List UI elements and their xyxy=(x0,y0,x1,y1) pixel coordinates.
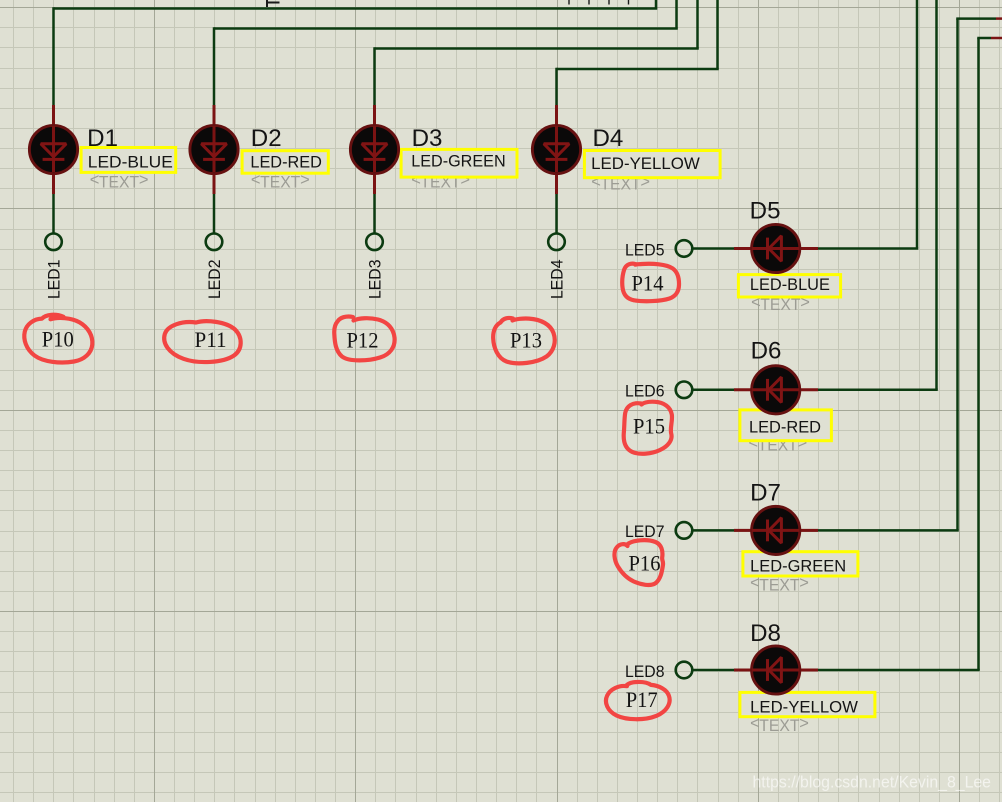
hand-drawn marker circle around P11 xyxy=(164,321,241,362)
svg-text:D2: D2 xyxy=(251,125,282,152)
wire net LED4: vertical drop to D4 anode xyxy=(555,68,558,106)
hand-drawn marker circle around P15 xyxy=(624,402,672,454)
svg-text:P10: P10 xyxy=(42,327,74,352)
terminal node LED6 xyxy=(676,382,693,399)
hand-drawn marker circle around P12 xyxy=(334,317,394,361)
svg-text:LED-GREEN: LED-GREEN xyxy=(750,558,846,576)
svg-text:LED1: LED1 xyxy=(44,260,63,300)
placeholder &lt;TEXT&gt; of D4 xyxy=(591,173,650,194)
value label box D7: LED-GREEN xyxy=(743,552,858,576)
svg-text:P14: P14 xyxy=(632,271,664,296)
svg-text:TEXT: TEXT xyxy=(759,717,799,735)
svg-text:P17: P17 xyxy=(626,687,658,712)
wire net LED1: vertical from D1 cathode to terminal xyxy=(52,193,55,234)
pin stub of off-screen part (net LED8) xyxy=(991,37,1002,40)
placeholder &lt;TEXT&gt; of D2 xyxy=(251,171,310,192)
svg-text:LED8: LED8 xyxy=(625,663,665,681)
svg-text:P15: P15 xyxy=(633,414,665,439)
svg-text:LED5: LED5 xyxy=(625,241,665,259)
svg-text:D1: D1 xyxy=(87,125,118,152)
terminal node LED1 xyxy=(45,234,62,251)
terminal node LED7 xyxy=(676,522,693,539)
svg-text:D4: D4 xyxy=(593,125,624,152)
wire net LED3: vertical drop to D3 anode xyxy=(373,47,376,106)
svg-text:LED-RED: LED-RED xyxy=(250,154,322,172)
wire net LED6: vertical riser to top edge xyxy=(935,0,938,390)
svg-text:P13: P13 xyxy=(510,328,542,353)
value label box D5: LED-BLUE xyxy=(738,275,840,297)
wire net LED7: horizontal from terminal to corner xyxy=(694,529,959,532)
LED D5 xyxy=(734,224,818,272)
svg-text:LED-RED: LED-RED xyxy=(749,418,821,436)
hand-drawn marker circle around P14 xyxy=(622,264,679,302)
LED D3 xyxy=(350,105,398,194)
value label box D3: LED-GREEN xyxy=(401,149,517,177)
svg-text:D7: D7 xyxy=(750,480,781,507)
terminal node LED5 xyxy=(676,240,693,257)
value label box D2: LED-RED xyxy=(242,151,328,174)
off-screen MCU pin stubs xyxy=(569,0,629,5)
placeholder &lt;TEXT&gt; of D8 xyxy=(750,715,809,736)
svg-text:P12: P12 xyxy=(347,328,379,353)
svg-text:LED4: LED4 xyxy=(547,260,566,300)
svg-text:TEXT: TEXT xyxy=(760,296,800,314)
svg-text:LED-YELLOW: LED-YELLOW xyxy=(750,698,858,716)
value label box D1: LED-BLUE xyxy=(81,148,176,173)
wire net LED2: vertical from D2 cathode to terminal xyxy=(213,193,216,234)
terminal node LED2 xyxy=(206,234,223,251)
svg-text:LED2: LED2 xyxy=(205,260,224,300)
wire net LED5: vertical riser to top edge xyxy=(916,0,919,249)
wire net LED8: vertical riser xyxy=(977,38,980,670)
svg-text:D8: D8 xyxy=(750,620,781,647)
wire net LED3: vertical from D3 cathode to terminal xyxy=(373,193,376,234)
svg-text:https://blog.csdn.net/Kevin_8_: https://blog.csdn.net/Kevin_8_Lee xyxy=(753,773,992,792)
svg-text:P16: P16 xyxy=(629,551,661,576)
value label box D6: LED-RED xyxy=(740,410,832,441)
terminal node LED3 xyxy=(366,234,383,251)
terminal node LED8 xyxy=(676,662,693,679)
value label box D4: LED-YELLOW xyxy=(584,151,720,178)
svg-text:LED-BLUE: LED-BLUE xyxy=(750,276,830,294)
wire net LED2: vertical from top edge x=676.5 xyxy=(675,0,678,29)
wire net LED6: horizontal from terminal to corner xyxy=(694,389,938,392)
svg-text:TEXT: TEXT xyxy=(99,174,139,192)
wire net LED2: horizontal bus y=28.5 xyxy=(214,27,678,30)
wire net LED7: top horizontal to right edge xyxy=(956,17,996,20)
wire net LED1: vertical drop to D1 anode xyxy=(52,7,55,106)
placeholder &lt;TEXT&gt; of D6 xyxy=(748,434,807,455)
svg-text:TEXT: TEXT xyxy=(260,173,300,191)
wire net LED4: horizontal bus y=69.0 xyxy=(557,68,719,71)
LED D6 xyxy=(734,366,818,414)
LED D4 xyxy=(532,105,580,194)
wire net LED8: horizontal from terminal to corner xyxy=(694,669,980,672)
wire net LED8: top horizontal to right edge xyxy=(977,37,991,40)
LED D8 xyxy=(734,646,818,694)
wire net LED3: horizontal bus y=48.5 xyxy=(375,47,699,50)
hand-drawn marker circle around P16 xyxy=(614,540,663,585)
LED D7 xyxy=(734,506,818,554)
placeholder &lt;TEXT&gt; of D1 xyxy=(90,171,149,192)
hand-drawn marker circle around P17 xyxy=(606,682,670,719)
svg-text:LED-BLUE: LED-BLUE xyxy=(88,153,173,171)
pin stub of off-screen part (net LED7) xyxy=(996,17,1002,20)
LED D2 xyxy=(190,105,238,194)
svg-text:D3: D3 xyxy=(412,125,443,152)
hand-drawn marker circle around P13 xyxy=(493,318,555,363)
svg-text:LED6: LED6 xyxy=(625,383,665,401)
wire net LED2: vertical drop to D2 anode xyxy=(213,27,216,106)
wire net LED4: vertical from top edge x=717.5 xyxy=(716,0,719,69)
svg-text:TEXT: TEXT xyxy=(759,576,799,594)
svg-text:LED-GREEN: LED-GREEN xyxy=(411,152,506,170)
wire net LED3: vertical from top edge x=697.5 xyxy=(696,0,699,49)
wire net LED7: vertical riser xyxy=(956,19,959,531)
wire net LED5: horizontal from terminal to corner xyxy=(694,247,919,250)
off-screen component text fragment xyxy=(267,0,280,7)
svg-text:LED-YELLOW: LED-YELLOW xyxy=(591,155,700,173)
LED D1 xyxy=(29,105,77,194)
placeholder &lt;TEXT&gt; of D7 xyxy=(750,574,809,595)
wire net LED4: vertical from D4 cathode to terminal xyxy=(555,193,558,234)
wire net LED1: vertical from top edge x=656.0 xyxy=(655,0,658,9)
svg-text:D5: D5 xyxy=(750,198,781,225)
placeholder &lt;TEXT&gt; of D5 xyxy=(751,294,810,315)
svg-text:LED3: LED3 xyxy=(365,260,384,300)
svg-text:P11: P11 xyxy=(195,327,227,352)
placeholder &lt;TEXT&gt; of D3 xyxy=(411,171,470,192)
hand-drawn marker circle around P10 xyxy=(24,315,92,363)
value label box D8: LED-YELLOW xyxy=(740,692,875,716)
svg-text:D6: D6 xyxy=(751,338,782,365)
wire net LED1: horizontal bus y=8.5 xyxy=(54,7,658,10)
terminal node LED4 xyxy=(548,234,565,251)
